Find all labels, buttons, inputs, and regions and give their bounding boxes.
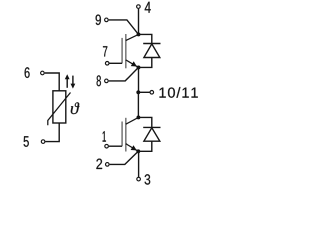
wire pin4 down bbox=[138, 9, 140, 35]
wire E1 to midpoint bbox=[138, 67, 140, 92]
node C2 bbox=[136, 115, 140, 119]
IGBT T2 emitter lead bbox=[126, 144, 139, 152]
node midpoint bbox=[136, 90, 140, 94]
wire midpoint to node C2 bbox=[137, 92, 139, 117]
diode D2 triangle bbox=[144, 128, 160, 141]
terminal pin 4 bbox=[137, 5, 141, 9]
current arrow down bbox=[71, 76, 76, 89]
diode D1 connecting wires bbox=[139, 34, 152, 67]
wire pin1 to gate T2 bbox=[109, 145, 122, 147]
terminal pin 8 bbox=[105, 79, 109, 83]
terminal pin 9 bbox=[105, 18, 109, 22]
IGBT T2 collector lead bbox=[126, 117, 139, 124]
IGBT T1 collector lead bbox=[126, 34, 139, 40]
wire pin2 to node E2 bbox=[110, 151, 139, 164]
wire pin9 to node C1 bbox=[109, 20, 139, 35]
terminal pin 5 bbox=[41, 140, 45, 144]
diode D2 connecting wires bbox=[138, 117, 152, 151]
label 4 bbox=[145, 2, 151, 13]
label 7 bbox=[103, 46, 107, 56]
label 6 bbox=[25, 67, 30, 78]
terminal pin 2 bbox=[106, 163, 110, 167]
wire pin8 to node E1 bbox=[109, 67, 139, 81]
thermistor bottom lead bbox=[45, 123, 59, 142]
terminal pins 10/11 bbox=[150, 91, 154, 95]
node E2 bbox=[136, 149, 140, 153]
node C1 bbox=[137, 32, 141, 36]
IGBT T1 emitter lead bbox=[126, 60, 139, 68]
thermistor diagonal bbox=[48, 93, 71, 126]
label 10/11 bbox=[159, 88, 165, 98]
label 1 bbox=[103, 131, 106, 141]
IGBT T1 emitter arrowhead bbox=[131, 61, 137, 66]
IGBT T2 body bar bbox=[125, 118, 127, 152]
IGBT T2 gate bar bbox=[121, 122, 123, 147]
label 8 bbox=[97, 75, 101, 86]
label 2 bbox=[96, 159, 102, 169]
current arrow up bbox=[65, 74, 70, 88]
terminal pin 6 bbox=[41, 71, 45, 75]
IGBT T1 body bar bbox=[125, 34, 127, 68]
wire pin7 to gate T1 bbox=[110, 62, 123, 64]
node E1 bbox=[137, 65, 141, 69]
terminal pin 1 bbox=[105, 144, 109, 148]
diode D2 cathode bar bbox=[143, 126, 160, 128]
IGBT T2 emitter arrowhead bbox=[131, 145, 137, 150]
label 5 bbox=[24, 136, 29, 147]
theta symbol bbox=[71, 102, 80, 114]
diode D1 triangle bbox=[144, 44, 160, 58]
terminal pin 3 bbox=[137, 177, 141, 181]
thermistor body bbox=[53, 91, 66, 123]
diode D1 cathode bar bbox=[143, 43, 160, 45]
label 3 bbox=[145, 174, 151, 184]
wire midpoint to pin 10/11 bbox=[138, 91, 149, 93]
label 9 bbox=[96, 15, 101, 25]
wire pin6 to thermistor bbox=[45, 73, 60, 91]
wire E2 to pin 3 bbox=[138, 151, 140, 177]
terminal pin 7 bbox=[105, 62, 109, 66]
IGBT T1 gate bar bbox=[121, 38, 123, 63]
